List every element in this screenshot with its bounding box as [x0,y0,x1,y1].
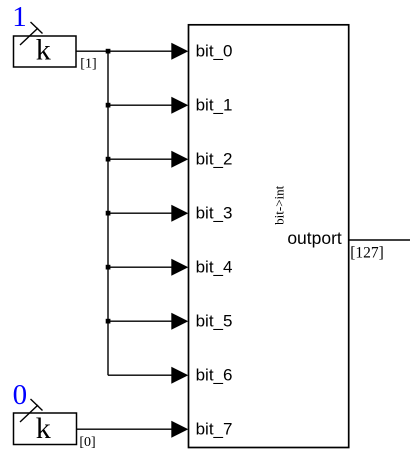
wire K0 output to bit_7 [77,428,173,430]
input arrowhead bit_5 [171,313,188,330]
svg-text:bit_5: bit_5 [196,312,233,331]
constant block K1 body [14,36,77,67]
junction node bit_1 [106,103,111,108]
junction node bit_0 [106,49,111,54]
svg-text:0: 0 [13,379,28,411]
svg-text:k: k [36,412,51,445]
input arrowhead bit_6 [171,367,188,384]
svg-text:bit->int: bit->int [271,185,286,224]
wire K1 output to bit_0 [76,50,172,52]
constant block K1 variable arrow tick [31,22,43,34]
svg-text:bit_6: bit_6 [196,366,233,385]
junction node bit_3 [106,211,111,216]
block U1 bit->int converter body [189,25,349,448]
svg-text:bit_2: bit_2 [196,150,233,169]
svg-text:bit_7: bit_7 [196,420,233,439]
constant block K0 variable arrow diagonal [20,405,38,422]
input arrowhead bit_2 [171,151,188,168]
svg-text:[127]: [127] [350,245,384,262]
svg-text:bit_1: bit_1 [196,96,233,115]
input arrowhead bit_1 [171,97,188,114]
svg-text:1: 1 [12,1,26,33]
wire branch to bit_2 [108,158,172,160]
input arrowhead bit_4 [171,259,188,276]
input arrowhead bit_7 [171,421,188,438]
wire branch to bit_1 [108,104,172,106]
wire branch to bit_3 [108,212,172,214]
svg-text:k: k [36,34,51,67]
svg-text:[1]: [1] [80,57,96,72]
wire vertical trunk [107,51,109,375]
svg-text:bit_4: bit_4 [196,258,233,277]
svg-text:bit_3: bit_3 [196,204,233,223]
junction node bit_2 [106,157,111,162]
svg-text:outport: outport [287,228,342,248]
wire branch to bit_6 [108,374,172,376]
wire outport to edge [349,239,410,241]
input arrowhead bit_3 [171,205,188,222]
constant block K0 body [14,413,77,445]
svg-text:bit_0: bit_0 [196,42,233,61]
constant block K0 variable arrow tick [31,399,43,411]
wire branch to bit_4 [108,266,172,268]
constant block K1 variable arrow diagonal [20,28,38,45]
junction node bit_5 [106,319,111,324]
svg-text:[0]: [0] [79,435,95,450]
input arrowhead bit_0 [171,43,188,60]
junction node bit_4 [106,265,111,270]
wire branch to bit_5 [108,320,172,322]
